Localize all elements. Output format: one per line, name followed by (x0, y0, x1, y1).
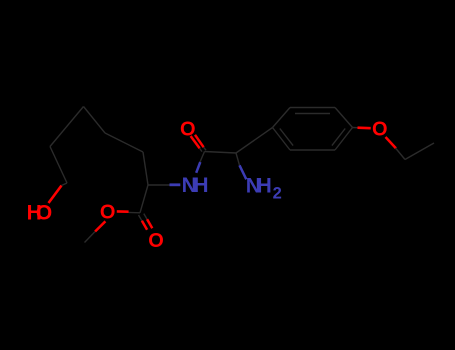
wire ring D-E bond (290, 149, 335, 151)
wire C7-C8 bond (84, 107, 106, 134)
svg-text:2: 2 (273, 184, 282, 202)
wire HO-C5 bond (49, 183, 68, 203)
wire alphaC1-esterC bond (140, 185, 148, 213)
wire C4-Oether bond (353, 127, 371, 130)
wire ring C4-D inner aromatic line (332, 129, 345, 146)
wire ring B-C4 bond (335, 108, 353, 128)
wire C8-C9 bond (105, 133, 143, 152)
svg-text:O: O (372, 118, 388, 140)
wire esterC-Oester bond (117, 211, 140, 212)
svg-text:O: O (148, 230, 164, 252)
wire alphaC2-NH2 bond (236, 153, 246, 179)
svg-text:NH: NH (246, 175, 272, 198)
wire esterC=O double bond (139, 214, 153, 230)
wire ring A-B inner aromatic line (295, 113, 330, 115)
wire alphaC1-N amide bond (148, 184, 180, 186)
wire amideC-alphaC2 bond (205, 152, 237, 154)
wire ring E-F bond (273, 128, 291, 151)
wire alphaC2-ringF benzylic bond (236, 128, 273, 154)
svg-text:O: O (180, 119, 196, 141)
label NH2 amine (246, 175, 282, 203)
wire C9-alphaC1 bond (143, 152, 148, 185)
wire ring A-B bond (290, 107, 335, 109)
wire amideC=O double bond (191, 135, 206, 152)
svg-text:NH: NH (182, 174, 209, 197)
wire CH2-CH3 ethyl bond (405, 143, 434, 160)
wire Oester-CH3 bond (85, 221, 106, 242)
wire C5-C6 bond (50, 147, 67, 184)
wire ring F-A bond (273, 108, 291, 128)
wire Oether-CH2 bond (386, 137, 406, 160)
wire ring C4-D bond (335, 128, 353, 151)
svg-text:O: O (100, 202, 116, 224)
wire ring E-F inner aromatic line (280, 129, 293, 146)
svg-text:HO: HO (27, 201, 53, 224)
wire C6-C7 bond (50, 107, 84, 147)
wire N-amideC bond (196, 152, 204, 173)
